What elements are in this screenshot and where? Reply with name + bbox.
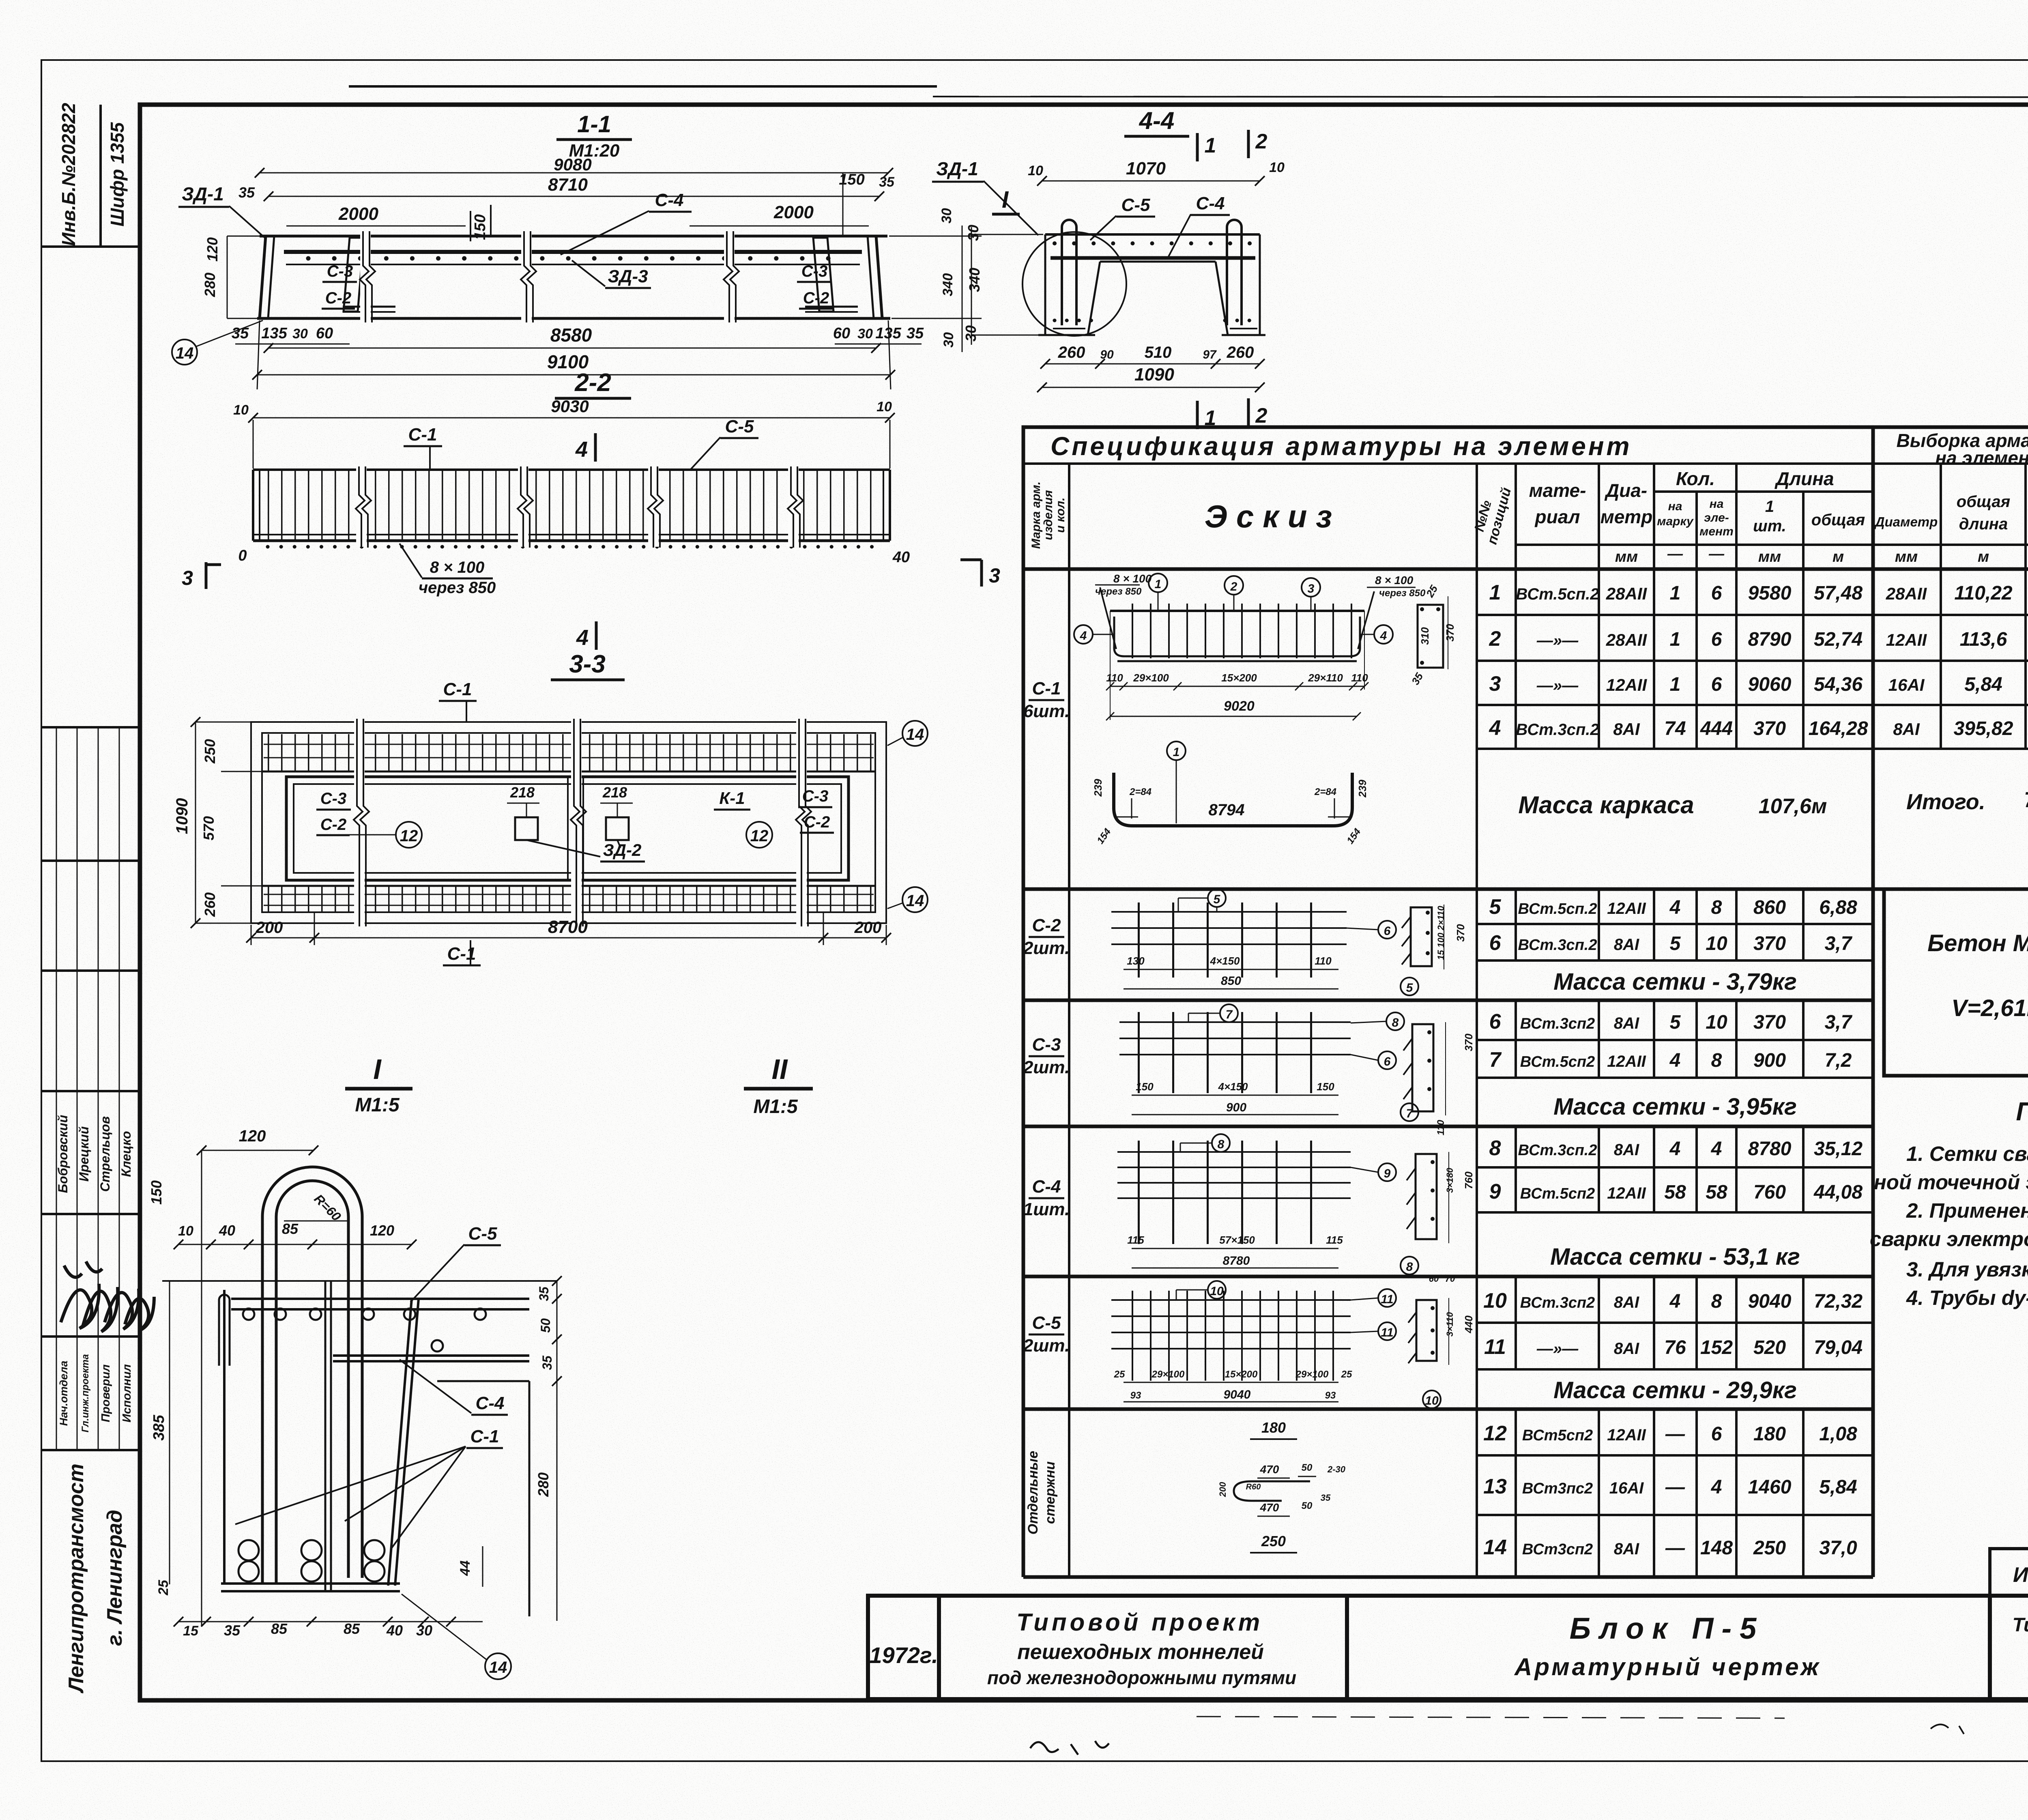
svg-text:1: 1 (1173, 746, 1180, 759)
svg-text:110: 110 (1315, 955, 1332, 967)
svg-text:Ирецкий: Ирецкий (77, 1126, 91, 1182)
svg-text:10: 10 (1483, 1289, 1507, 1313)
svg-text:общая: общая (1957, 493, 2010, 511)
svg-text:444: 444 (1700, 718, 1733, 739)
svg-text:на элемент: на элемент (1935, 447, 2028, 468)
plates ZD-2 (515, 817, 538, 840)
svg-text:470: 470 (1260, 1463, 1279, 1476)
bottom plate (221, 1582, 400, 1585)
svg-text:35,12: 35,12 (1814, 1138, 1863, 1160)
svg-text:850: 850 (1221, 974, 1241, 988)
section C-2 rows (1477, 889, 1873, 960)
svg-text:120: 120 (370, 1222, 394, 1239)
svg-text:370: 370 (1463, 1034, 1475, 1051)
scan artifacts (349, 86, 2028, 1755)
svg-text:изделия: изделия (1042, 490, 1055, 540)
svg-text:Масса сетки - 29,9кг: Масса сетки - 29,9кг (1553, 1377, 1797, 1403)
svg-text:С-1: С-1 (470, 1427, 499, 1446)
svg-text:12АII: 12АII (1606, 675, 1648, 694)
svg-text:40: 40 (892, 549, 910, 566)
svg-text:мате-: мате- (1529, 480, 1586, 501)
svg-text:28АII: 28АII (1606, 584, 1648, 603)
svg-text:С-4: С-4 (476, 1393, 505, 1413)
svg-text:74: 74 (1664, 718, 1686, 739)
svg-text:14: 14 (1483, 1536, 1507, 1559)
svg-text:57,48: 57,48 (1814, 582, 1863, 604)
svg-text:340: 340 (940, 273, 956, 297)
svg-text:К-1: К-1 (719, 789, 745, 808)
svg-text:115: 115 (1127, 1234, 1144, 1246)
svg-text:2: 2 (1255, 404, 1267, 428)
svg-text:Масса сетки - 53,1 кг: Масса сетки - 53,1 кг (1550, 1244, 1800, 1270)
svg-text:280: 280 (202, 273, 218, 297)
svg-text:8: 8 (1218, 1138, 1225, 1151)
svg-text:29×100: 29×100 (1151, 1369, 1185, 1380)
svg-text:12АII: 12АII (1607, 1053, 1646, 1070)
svg-text:35: 35 (907, 325, 924, 342)
svg-text:6: 6 (1711, 1423, 1722, 1445)
svg-text:9040: 9040 (1748, 1291, 1792, 1312)
svg-text:3×180: 3×180 (1445, 1167, 1455, 1193)
svg-text:Проверил: Проверил (99, 1364, 112, 1422)
svg-text:6: 6 (1384, 924, 1391, 938)
svg-text:марку: марку (1657, 515, 1694, 528)
svg-text:8: 8 (1406, 1260, 1413, 1274)
svg-text:С-2: С-2 (803, 289, 829, 307)
svg-text:30: 30 (941, 332, 956, 348)
svg-text:1-1: 1-1 (577, 111, 611, 138)
svg-text:С-3: С-3 (327, 262, 353, 280)
svg-text:10: 10 (1425, 1394, 1439, 1407)
svg-text:60: 60 (316, 325, 333, 342)
svg-text:1090: 1090 (173, 798, 191, 834)
svg-text:1: 1 (1155, 578, 1162, 591)
svg-text:мм: мм (1758, 548, 1781, 565)
svg-text:8АI: 8АI (1614, 1294, 1639, 1311)
svg-text:2шт.: 2шт. (1023, 1057, 1070, 1077)
svg-text:Гл.инж.проекта: Гл.инж.проекта (80, 1354, 91, 1432)
svg-text:12АII: 12АII (1607, 1426, 1646, 1444)
svg-text:14: 14 (176, 344, 194, 362)
svg-text:Масса сетки - 3,79кг: Масса сетки - 3,79кг (1553, 969, 1797, 995)
section C-4 rows (1477, 1126, 1873, 1212)
svg-text:Инв.Б.№202822: Инв.Б.№202822 (58, 103, 79, 246)
svg-text:ВСт.5сп.2: ВСт.5сп.2 (1518, 900, 1597, 918)
svg-text:ВСт.3сп.2: ВСт.3сп.2 (1516, 721, 1599, 739)
eskiz sketch C-1 carcass top view (1074, 572, 1456, 720)
svg-text:9: 9 (1384, 1167, 1391, 1180)
svg-text:50: 50 (1302, 1500, 1313, 1511)
side (1416, 1300, 1437, 1361)
eskiz sketch C-2 (1111, 889, 1467, 995)
svg-text:107,6м: 107,6м (1759, 795, 1827, 818)
svg-text:9080: 9080 (554, 155, 591, 174)
svg-text:12АII: 12АII (1607, 900, 1646, 918)
svg-text:Кол.: Кол. (1676, 468, 1715, 489)
section body (1045, 233, 1260, 236)
svg-text:10: 10 (1028, 163, 1043, 178)
svg-text:25: 25 (156, 1579, 171, 1596)
svg-text:3: 3 (182, 567, 193, 589)
concrete edge L (437, 1380, 529, 1382)
svg-text:на: на (1710, 497, 1724, 511)
svg-text:14: 14 (906, 726, 924, 743)
svg-text:2=84: 2=84 (1129, 786, 1151, 797)
table header texts (1029, 430, 2028, 565)
svg-text:510: 510 (1145, 344, 1172, 361)
svg-text:2: 2 (1489, 627, 1501, 651)
second mesh (333, 1354, 529, 1357)
svg-text:мм: мм (1895, 548, 1918, 565)
svg-text:—: — (1665, 1476, 1685, 1498)
svg-text:11: 11 (1381, 1326, 1393, 1339)
svg-text:4-4: 4-4 (1139, 107, 1175, 134)
svg-text:85: 85 (344, 1620, 360, 1637)
svg-text:11: 11 (1484, 1335, 1506, 1359)
svg-text:385: 385 (150, 1414, 168, 1440)
svg-text:2000: 2000 (773, 202, 814, 222)
svg-text:370: 370 (1753, 933, 1786, 954)
section OT rows (1477, 1409, 1873, 1577)
svg-text:Длина: Длина (1774, 468, 1834, 489)
svg-text:8780: 8780 (1223, 1254, 1250, 1268)
svg-text:135: 135 (261, 325, 287, 342)
svg-text:2-30: 2-30 (1327, 1464, 1346, 1474)
svg-text:4: 4 (1489, 716, 1501, 740)
svg-text:—»—: —»— (1536, 632, 1579, 649)
svg-text:риал: риал (1534, 506, 1580, 527)
svg-text:8АI: 8АI (1614, 1014, 1639, 1032)
svg-text:30: 30 (416, 1622, 432, 1639)
svg-text:35: 35 (238, 184, 255, 201)
svg-text:6: 6 (1711, 582, 1722, 604)
svg-text:С-5: С-5 (1121, 195, 1150, 215)
svg-text:ВСт.3сп2: ВСт.3сп2 (1520, 1294, 1595, 1311)
svg-text:760: 760 (1463, 1171, 1475, 1189)
svg-text:4: 4 (576, 625, 589, 650)
svg-text:R60: R60 (1246, 1483, 1261, 1491)
svg-text:1: 1 (1765, 498, 1774, 516)
eskiz sketch C-4 (1117, 1120, 1475, 1274)
svg-text:218: 218 (510, 784, 535, 801)
svg-text:12АII: 12АII (1886, 630, 1927, 649)
svg-text:28АII: 28АII (1606, 630, 1648, 649)
svg-text:8 × 100: 8 × 100 (430, 559, 485, 576)
svg-text:шт.: шт. (1753, 517, 1786, 535)
svg-text:12АII: 12АII (1607, 1184, 1646, 1202)
svg-text:110: 110 (1435, 1120, 1446, 1135)
svg-text:V=2,61м³: V=2,61м³ (1951, 995, 2028, 1021)
svg-text:м: м (1978, 548, 1989, 565)
svg-text:1972г.: 1972г. (869, 1642, 938, 1668)
svg-text:35: 35 (224, 1622, 241, 1639)
svg-text:2=84: 2=84 (1314, 786, 1336, 797)
svg-text:14: 14 (906, 892, 924, 910)
svg-text:11: 11 (1381, 1293, 1393, 1306)
svg-text:10: 10 (1210, 1285, 1224, 1298)
svg-text:110: 110 (1351, 672, 1368, 684)
svg-text:—»—: —»— (1536, 1340, 1579, 1358)
svg-text:8780: 8780 (1748, 1138, 1792, 1160)
svg-text:250: 250 (202, 739, 218, 764)
svg-text:6: 6 (1711, 674, 1722, 695)
svg-text:120: 120 (204, 237, 221, 262)
svg-text:200: 200 (1218, 1482, 1228, 1497)
svg-text:1шт.: 1шт. (1023, 1199, 1070, 1219)
svg-text:250: 250 (1261, 1533, 1286, 1549)
svg-text:II: II (772, 1053, 788, 1085)
svg-text:2: 2 (1255, 130, 1267, 153)
svg-text:5: 5 (1670, 933, 1681, 954)
svg-text:85: 85 (282, 1220, 299, 1237)
svg-text:12: 12 (400, 827, 418, 845)
svg-text:440: 440 (1463, 1315, 1475, 1334)
svg-text:14: 14 (489, 1659, 507, 1676)
svg-text:4: 4 (1711, 1476, 1722, 1498)
svg-text:10: 10 (178, 1223, 193, 1239)
svg-text:164,28: 164,28 (1809, 718, 1868, 739)
bottom bar circles (238, 1540, 259, 1560)
svg-text:8АI: 8АI (1614, 1340, 1639, 1358)
grid lines (1023, 464, 2028, 1577)
svg-text:1: 1 (1489, 581, 1501, 604)
svg-text:ЗД-1: ЗД-1 (182, 183, 224, 204)
svg-text:58: 58 (1664, 1182, 1686, 1203)
svg-text:30: 30 (292, 326, 308, 342)
svg-text:М1:5: М1:5 (355, 1094, 400, 1116)
svg-text:М1:5: М1:5 (753, 1096, 798, 1117)
svg-text:260: 260 (202, 892, 218, 917)
svg-text:2шт.: 2шт. (1023, 1336, 1070, 1356)
svg-text:4: 4 (575, 437, 588, 462)
break marks across plan (354, 719, 811, 926)
svg-text:35: 35 (1321, 1493, 1331, 1503)
svg-text:Примечания:: Примечания: (2016, 1097, 2028, 1126)
svg-text:и кол.: и кол. (1054, 497, 1067, 533)
svg-text:35: 35 (537, 1286, 551, 1301)
svg-text:С-5: С-5 (468, 1224, 497, 1244)
bottom dims (251, 937, 886, 939)
left dim chain (971, 227, 972, 345)
svg-text:общая: общая (1811, 511, 1865, 529)
svg-text:Бетон М300: Бетон М300 (1927, 930, 2028, 956)
svg-text:110: 110 (1106, 672, 1123, 684)
svg-text:ВСт5сп2: ВСт5сп2 (1522, 1427, 1593, 1444)
svg-text:8 × 100: 8 × 100 (1375, 574, 1414, 587)
svg-text:148: 148 (1700, 1537, 1733, 1559)
svg-text:28АII: 28АII (1886, 584, 1927, 603)
svg-text:9060: 9060 (1748, 674, 1792, 695)
svg-text:Масса сетки - 3,95кг: Масса сетки - 3,95кг (1553, 1094, 1797, 1120)
svg-text:8АI: 8АI (1893, 720, 1920, 739)
eskiz sketch C-5 (1111, 1274, 1475, 1408)
svg-text:сварки электродами не разре: сварки электродами не разрешается. (1870, 1227, 2028, 1251)
svg-text:180: 180 (1753, 1423, 1786, 1445)
svg-text:10: 10 (233, 402, 249, 418)
svg-text:9020: 9020 (1224, 698, 1255, 714)
svg-text:С-5: С-5 (725, 417, 754, 436)
svg-text:5: 5 (1670, 1012, 1681, 1033)
svg-text:29×110: 29×110 (1308, 672, 1343, 684)
svg-text:3: 3 (1489, 672, 1501, 696)
primechaniya notes (1870, 1097, 2028, 1309)
svg-text:7: 7 (1226, 1008, 1233, 1021)
svg-text:3,7: 3,7 (1825, 933, 1853, 954)
svg-text:4: 4 (1080, 629, 1087, 642)
svg-text:0: 0 (238, 547, 247, 564)
svg-text:Типовой проект: Типовой проект (1016, 1609, 1263, 1636)
svg-text:54,36: 54,36 (1814, 674, 1863, 695)
svg-text:1460: 1460 (1748, 1476, 1792, 1498)
svg-text:5,84: 5,84 (1964, 674, 2002, 695)
svg-text:370: 370 (1444, 624, 1456, 642)
svg-text:3: 3 (1308, 582, 1315, 595)
slanted bars (388, 1299, 412, 1586)
svg-text:4: 4 (1380, 629, 1387, 642)
section C-3 rows (1477, 1000, 1873, 1078)
svg-text:60: 60 (1429, 1274, 1439, 1284)
svg-text:200: 200 (854, 919, 882, 937)
bottom dims (178, 1621, 483, 1622)
svg-text:52,74: 52,74 (1814, 629, 1863, 650)
svg-text:16АI: 16АI (1888, 675, 1925, 694)
svg-text:6: 6 (1711, 629, 1722, 650)
middle vertical bar (324, 1282, 327, 1590)
eskiz sketch C-1 U-bar (1092, 741, 1368, 846)
svg-text:70: 70 (1445, 1274, 1455, 1284)
svg-text:85: 85 (271, 1620, 288, 1637)
svg-text:8АI: 8АI (1613, 720, 1640, 739)
svg-text:40: 40 (219, 1222, 235, 1239)
svg-text:260: 260 (1227, 344, 1254, 361)
svg-text:1090: 1090 (1134, 365, 1174, 385)
svg-text:С-1: С-1 (1032, 679, 1061, 698)
svg-text:57×150: 57×150 (1219, 1234, 1255, 1246)
left stamp column (41, 105, 140, 1450)
svg-text:Нач.отдела: Нач.отдела (58, 1361, 70, 1426)
svg-text:9580: 9580 (1748, 582, 1792, 604)
title block (868, 1549, 2028, 1699)
svg-text:5,84: 5,84 (1819, 1476, 1857, 1498)
svg-text:150: 150 (1136, 1081, 1154, 1093)
svg-text:9040: 9040 (1224, 1388, 1251, 1401)
svg-text:370: 370 (1753, 718, 1786, 739)
svg-text:12: 12 (1483, 1422, 1507, 1445)
svg-text:29×100: 29×100 (1295, 1369, 1329, 1380)
svg-text:180: 180 (1261, 1419, 1286, 1436)
svg-text:50: 50 (1302, 1462, 1313, 1473)
svg-text:760: 760 (1753, 1182, 1786, 1203)
svg-text:8710: 8710 (548, 175, 588, 195)
svg-text:Марка арм.: Марка арм. (1029, 481, 1043, 549)
embedded plate right (813, 238, 834, 312)
svg-text:5: 5 (1489, 895, 1502, 919)
svg-text:520: 520 (1753, 1337, 1786, 1358)
svg-text:ВСт.3сп.2: ВСт.3сп.2 (1518, 1142, 1597, 1159)
svg-text:3. Для увязки см. лист 3: 3. Для увязки см. лист 30. (1906, 1258, 2028, 1281)
svg-text:3-3: 3-3 (569, 650, 606, 678)
svg-text:стержни: стержни (1042, 1461, 1058, 1524)
svg-text:29×100: 29×100 (1133, 672, 1169, 684)
svg-text:на: на (1668, 500, 1682, 513)
eskiz OT rows (1218, 1419, 1346, 1553)
table data rows (1483, 581, 2028, 1559)
slab top line (162, 1280, 557, 1282)
svg-text:С-1: С-1 (408, 425, 437, 445)
svg-text:Блок П-5: Блок П-5 (1570, 1612, 1765, 1645)
plan body (264, 734, 874, 771)
svg-text:3: 3 (989, 564, 1000, 587)
svg-text:120: 120 (239, 1127, 266, 1145)
bottom dims (1045, 363, 1260, 365)
svg-text:8: 8 (1711, 1291, 1722, 1312)
break marks (360, 231, 739, 324)
svg-text:С-4: С-4 (655, 190, 684, 210)
svg-text:С-4: С-4 (1032, 1177, 1061, 1197)
svg-text:Диаметр: Диаметр (1874, 514, 1938, 529)
svg-text:3×110: 3×110 (1445, 1312, 1455, 1337)
svg-text:Масса каркаса: Масса каркаса (1518, 791, 1694, 819)
svg-text:150: 150 (148, 1180, 165, 1205)
svg-text:370: 370 (1454, 924, 1467, 942)
svg-text:44,08: 44,08 (1813, 1182, 1863, 1203)
svg-text:5: 5 (1214, 893, 1221, 906)
svg-text:1070: 1070 (1126, 159, 1166, 178)
svg-text:Типовой проект: Типовой проект (2013, 1614, 2028, 1636)
svg-text:5: 5 (1406, 981, 1414, 995)
embedded plate left (344, 238, 364, 312)
svg-text:8: 8 (1489, 1137, 1501, 1160)
svg-text:9030: 9030 (551, 397, 589, 416)
section C-5 rows (1477, 1276, 1873, 1369)
svg-text:1: 1 (1205, 134, 1216, 157)
svg-text:эле-: эле- (1704, 511, 1729, 524)
svg-text:58: 58 (1706, 1182, 1727, 1203)
svg-text:4: 4 (1669, 1138, 1681, 1160)
svg-text:30: 30 (965, 225, 982, 241)
svg-text:ВСт3сп2: ВСт3сп2 (1522, 1541, 1593, 1558)
signatures squiggles (61, 1261, 154, 1332)
svg-text:2шт.: 2шт. (1023, 938, 1070, 958)
svg-text:8АI: 8АI (1614, 936, 1639, 954)
svg-text:150: 150 (1317, 1081, 1334, 1093)
svg-text:340: 340 (966, 268, 983, 292)
svg-text:35: 35 (540, 1355, 554, 1370)
outer and heavy lines (1023, 427, 2028, 1577)
side (1416, 1154, 1437, 1239)
svg-text:239: 239 (1356, 780, 1368, 798)
svg-text:50: 50 (538, 1318, 553, 1333)
svg-text:7,2: 7,2 (1825, 1050, 1852, 1071)
svg-text:пешеходных тоннелей: пешеходных тоннелей (1017, 1640, 1264, 1664)
svg-text:113,6: 113,6 (1960, 629, 2007, 650)
svg-text:I: I (373, 1053, 382, 1085)
svg-text:С-3: С-3 (801, 262, 827, 280)
svg-text:15×200: 15×200 (1221, 672, 1257, 684)
svg-text:Ленгипротрансмост: Ленгипротрансмост (64, 1463, 88, 1694)
svg-text:30: 30 (857, 326, 873, 342)
svg-text:1: 1 (1670, 629, 1681, 650)
svg-text:4: 4 (1669, 1291, 1681, 1312)
svg-text:Итого.: Итого. (1906, 790, 1985, 814)
svg-text:С-4: С-4 (1196, 193, 1225, 213)
svg-text:900: 900 (1753, 1050, 1786, 1071)
svg-text:С-3: С-3 (802, 787, 828, 805)
svg-text:ВСт.5сп2: ВСт.5сп2 (1520, 1053, 1595, 1070)
svg-text:310: 310 (1419, 627, 1431, 645)
svg-text:мм: мм (1615, 548, 1638, 565)
svg-text:ной точечной электросваркой.: ной точечной электросваркой. (1874, 1171, 2028, 1194)
